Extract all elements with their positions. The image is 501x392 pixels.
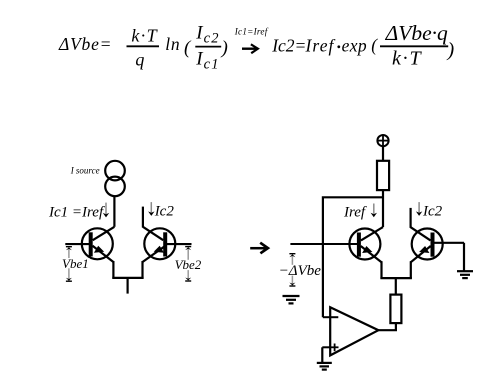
label Ic1 =Iref	[48, 205, 105, 221]
svg-text:Ic1 =Iref: Ic1 =Iref	[48, 205, 105, 221]
svg-text:Iref: Iref	[343, 205, 367, 221]
svg-text:ΔVbe·q: ΔVbe·q	[385, 21, 448, 45]
resistor R2	[390, 295, 401, 324]
wire: Q4 base to ground	[463, 243, 465, 271]
label Ic2 (right circuit)	[422, 204, 443, 220]
label Iref	[343, 205, 367, 221]
voltage indicator Vbe2	[174, 247, 202, 281]
condition label Ic1=Iref over arrow	[234, 26, 269, 36]
transistor Q4	[411, 208, 464, 279]
formula rhs: Ic2=Iref·exp(	[271, 35, 378, 55]
implication arrow (formula)	[242, 44, 258, 53]
svg-text:Ic2: Ic2	[154, 204, 175, 220]
current arrow down (Ic1)	[103, 203, 109, 218]
transistor Q3	[349, 227, 383, 279]
wire: common emitter bus with stub	[112, 278, 143, 294]
voltage indicator -ΔVbe	[279, 254, 322, 286]
svg-text:−ΔVbe: −ΔVbe	[279, 263, 322, 279]
op-amp U1	[322, 307, 378, 355]
voltage indicator Vbe1	[62, 247, 90, 282]
svg-text:ΔVbe=: ΔVbe=	[58, 34, 112, 54]
svg-text:): )	[447, 39, 455, 61]
svg-text:Ic2: Ic2	[422, 204, 443, 220]
svg-text:k·T: k·T	[392, 48, 422, 70]
svg-text:exp: exp	[342, 35, 368, 55]
current arrow down (Ic2 left)	[148, 202, 154, 216]
ground (op-amp + input)	[317, 363, 332, 370]
svg-text:Ic1=Iref: Ic1=Iref	[234, 26, 269, 36]
label I source	[70, 166, 100, 176]
formula lhs: ΔVbe=	[58, 34, 112, 54]
transistor Q1	[65, 227, 114, 279]
fraction Ic2/Ic1	[195, 22, 228, 72]
wire: feedback tap to op-amp inverting input	[323, 197, 383, 317]
svg-text:ln: ln	[165, 34, 180, 54]
wire: right emitter bus with stub	[380, 278, 412, 295]
svg-text:Iref: Iref	[305, 35, 336, 55]
fraction k·T/q	[127, 26, 160, 70]
svg-text:): )	[221, 37, 228, 58]
arrow between circuits	[250, 243, 268, 254]
svg-text:Ic2=: Ic2=	[271, 35, 306, 55]
svg-text:Vbe2: Vbe2	[175, 257, 202, 272]
svg-text:k·T: k·T	[131, 26, 158, 46]
fraction ΔVbe·q / k·T	[380, 21, 455, 69]
ground (below -ΔVbe)	[283, 296, 300, 303]
svg-text:Vbe1: Vbe1	[62, 256, 89, 271]
wire: R1 to Q3 collector corner	[382, 190, 384, 227]
supply terminal (circle with plus)	[377, 135, 389, 147]
current arrow down (Ic2 right)	[416, 202, 422, 216]
wire: supply to resistor R1	[382, 146, 384, 161]
ground (Q4 base)	[457, 271, 473, 278]
wire: op-amp + input to ground	[321, 347, 323, 363]
svg-text:I source: I source	[70, 166, 100, 176]
wire: R2 to op-amp output	[378, 323, 396, 330]
formula: ln (	[165, 34, 192, 59]
svg-text:q: q	[135, 49, 144, 69]
current arrow down (Iref)	[371, 204, 377, 218]
current source I1 (two circles)	[105, 161, 125, 196]
transistor Q2	[143, 207, 192, 279]
wire: base line to Q3	[290, 243, 359, 245]
resistor R1	[377, 161, 389, 190]
label Ic2 (left circuit)	[154, 204, 175, 220]
wire: current source to Q1 collector corner	[113, 196, 115, 227]
